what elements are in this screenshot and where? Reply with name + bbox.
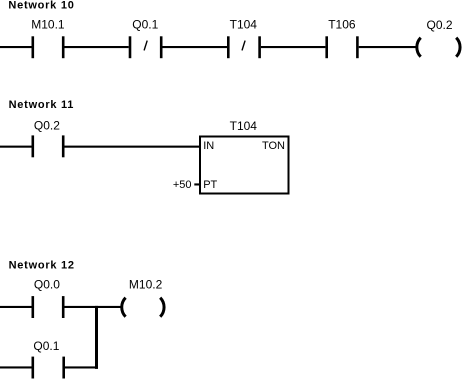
contact Q0.0 xyxy=(32,278,65,318)
svg-text:Network 10: Network 10 xyxy=(8,0,74,12)
NC contact T104 xyxy=(227,18,261,59)
wire left rail to Q0.0 xyxy=(0,306,32,308)
svg-text:T104: T104 xyxy=(230,119,258,133)
network 11 title xyxy=(9,99,75,111)
wire T104 to T106 xyxy=(261,46,326,48)
svg-text:Q0.0: Q0.0 xyxy=(34,278,60,292)
wire Q0.1 to T104 xyxy=(163,46,228,48)
wire left rail to Q0.2 xyxy=(0,146,32,148)
branch wire left rail to Q0.1 xyxy=(0,366,32,368)
svg-text:Q0.1: Q0.1 xyxy=(132,18,158,32)
svg-text:Network 11: Network 11 xyxy=(9,99,75,111)
svg-text:T106: T106 xyxy=(328,18,356,32)
network 12 title xyxy=(9,260,75,272)
branch wire Q0.1 to junction xyxy=(65,366,98,368)
branch contact Q0.1 xyxy=(32,339,66,379)
contact M10.1 xyxy=(31,18,65,59)
svg-text:M10.1: M10.1 xyxy=(31,18,65,32)
wire T106 to coil Q0.2 xyxy=(359,46,418,48)
coil M10.2 xyxy=(122,278,164,317)
coil Q0.2 xyxy=(417,18,460,57)
svg-text:Q0.2: Q0.2 xyxy=(34,118,60,132)
operand +50 on PT pin xyxy=(173,179,200,191)
svg-text:T104: T104 xyxy=(230,18,258,32)
svg-text:IN: IN xyxy=(203,140,214,152)
wire M10.1 to Q0.1 xyxy=(65,46,129,48)
network 10 title xyxy=(8,0,74,12)
wire Q0.0 to coil M10.2 xyxy=(65,306,122,308)
svg-text:+50: +50 xyxy=(173,179,192,191)
svg-text:Network 12: Network 12 xyxy=(9,260,75,272)
svg-text:M10.2: M10.2 xyxy=(129,278,163,292)
contact T106 xyxy=(325,18,358,59)
svg-text:Q0.1: Q0.1 xyxy=(33,339,59,353)
svg-text:PT: PT xyxy=(203,179,217,191)
wire Q0.2 to timer box IN xyxy=(65,146,201,148)
contact Q0.2 xyxy=(32,118,65,157)
NC contact Q0.1 xyxy=(129,18,163,59)
timer box T104 TON xyxy=(200,119,289,194)
branch junction vertical wire xyxy=(95,306,98,369)
svg-text:TON: TON xyxy=(262,140,285,152)
wire left rail to M10.1 xyxy=(0,46,32,48)
svg-text:Q0.2: Q0.2 xyxy=(426,18,452,32)
